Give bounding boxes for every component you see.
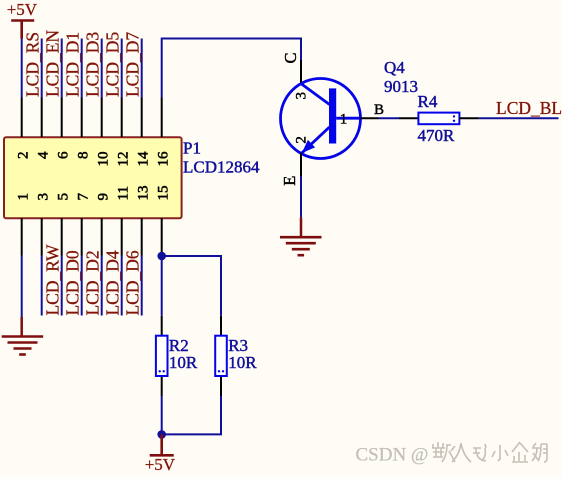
svg-text:1: 1 xyxy=(16,193,32,201)
resistor R4 body xyxy=(418,113,459,125)
svg-text:4: 4 xyxy=(36,151,52,159)
svg-text:12: 12 xyxy=(116,152,132,167)
R3 pins black xyxy=(220,316,222,396)
R2 pins black xyxy=(161,316,163,396)
svg-text:7: 7 xyxy=(76,193,92,201)
wire pin12 xyxy=(121,39,123,98)
emitter arrow xyxy=(302,140,315,153)
svg-text:+5V: +5V xyxy=(145,455,176,472)
svg-text:LCD_D4: LCD_D4 xyxy=(103,250,123,315)
svg-text:P1: P1 xyxy=(183,139,201,158)
svg-text:R4: R4 xyxy=(418,92,438,111)
svg-text:470R: 470R xyxy=(418,126,456,145)
power symbol +5V top xyxy=(11,21,34,39)
svg-text:LCD_BL: LCD_BL xyxy=(496,98,562,118)
wire pin14 xyxy=(141,39,143,98)
wire R3 bottom to node xyxy=(162,396,221,434)
svg-text:8: 8 xyxy=(76,152,92,160)
svg-text:9013: 9013 xyxy=(384,77,418,96)
svg-text:14: 14 xyxy=(136,151,152,167)
svg-text:LCD_D5: LCD_D5 xyxy=(103,32,123,97)
svg-text:LCD_D2: LCD_D2 xyxy=(83,250,103,315)
wire pin7 xyxy=(81,256,83,316)
svg-text:LCD_D0: LCD_D0 xyxy=(63,250,83,315)
svg-text:LCD_RS: LCD_RS xyxy=(23,32,43,97)
svg-text:9: 9 xyxy=(96,193,112,201)
wire pin8 xyxy=(81,39,83,98)
svg-text:10R: 10R xyxy=(169,353,198,372)
svg-text:E: E xyxy=(280,176,299,186)
pin numbers top row xyxy=(16,151,172,167)
power symbol +5V bottom xyxy=(150,434,174,455)
svg-text:LCD_D1: LCD_D1 xyxy=(63,32,83,97)
svg-text:B: B xyxy=(374,102,384,118)
wire LCD_BL net xyxy=(479,117,559,119)
wire pin10 xyxy=(101,39,103,98)
black pins top of connector xyxy=(22,98,162,138)
svg-text:3: 3 xyxy=(294,92,310,100)
svg-text:+5V: +5V xyxy=(7,0,38,19)
ground left xyxy=(2,317,44,355)
connector P1 body xyxy=(4,137,182,218)
svg-text:C: C xyxy=(281,52,300,63)
svg-text:11: 11 xyxy=(116,186,132,200)
ground right xyxy=(280,217,322,255)
emitter wire to ground xyxy=(300,176,302,217)
wire pin6 xyxy=(61,39,63,98)
black pins bottom of connector xyxy=(22,218,162,256)
svg-text:LCD_D3: LCD_D3 xyxy=(83,32,103,97)
wire pin11 xyxy=(121,256,123,316)
svg-text:13: 13 xyxy=(136,186,152,201)
svg-text:6: 6 xyxy=(56,151,72,159)
junction node bottom xyxy=(157,430,166,439)
emitter pin black xyxy=(300,153,302,176)
wire pin15 down to R2 xyxy=(161,256,163,316)
svg-text:Q4: Q4 xyxy=(384,58,405,77)
R4 left pin black xyxy=(399,117,418,119)
svg-text:2: 2 xyxy=(16,152,32,160)
transistor Q4 collector pin black xyxy=(300,60,302,85)
watermark CSDN xyxy=(356,442,548,467)
svg-text:LCD_D6: LCD_D6 xyxy=(123,250,143,315)
svg-text:LCD_RW: LCD_RW xyxy=(43,244,63,315)
base wire xyxy=(379,117,400,119)
wire pin13 xyxy=(141,256,143,316)
wire pin5 xyxy=(61,256,63,316)
wire pin1 to ground xyxy=(21,256,23,318)
wire pin9 xyxy=(101,256,103,316)
svg-text:1: 1 xyxy=(340,112,348,128)
junction node pin15/R2 top xyxy=(157,252,166,261)
svg-text:15: 15 xyxy=(156,186,172,201)
transistor Q4 body xyxy=(281,79,361,159)
svg-text:2: 2 xyxy=(294,136,310,144)
wire pin4 xyxy=(41,39,43,98)
resistor R2 body xyxy=(156,336,168,376)
svg-text:10R: 10R xyxy=(228,353,257,372)
wire pin2 net +5V xyxy=(21,39,23,98)
svg-text:16: 16 xyxy=(156,151,172,167)
svg-text:3: 3 xyxy=(36,193,52,201)
base pin black xyxy=(360,117,378,119)
wire pin16 to transistor collector xyxy=(162,39,301,98)
svg-text:5: 5 xyxy=(56,193,72,201)
svg-text:LCD_EN: LCD_EN xyxy=(43,30,63,97)
wire R2 bottom to +5V node xyxy=(161,396,163,434)
svg-text:LCD12864: LCD12864 xyxy=(183,158,260,177)
resistor R3 body xyxy=(215,336,227,376)
svg-text:CSDN @: CSDN @ xyxy=(356,445,429,466)
wire branch to R3 top xyxy=(162,256,221,316)
R4 right pin black xyxy=(459,117,478,119)
svg-text:LCD_D7: LCD_D7 xyxy=(123,32,143,97)
svg-text:10: 10 xyxy=(96,152,112,167)
wire pin3 xyxy=(41,256,43,316)
pin numbers bottom row xyxy=(16,186,172,201)
